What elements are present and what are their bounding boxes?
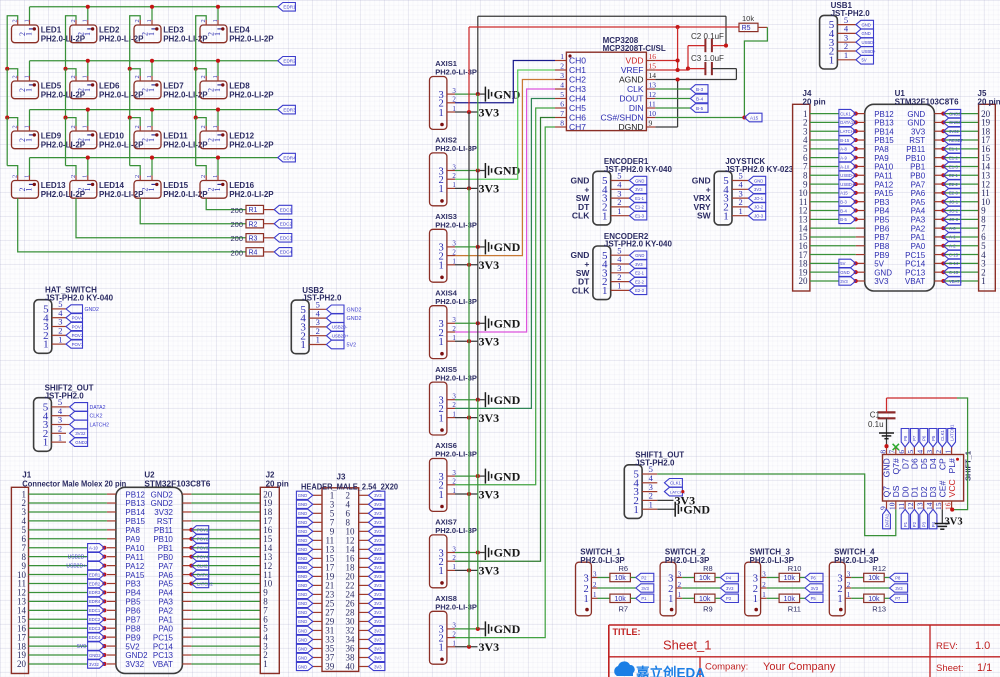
svg-text:1: 1 (439, 337, 444, 348)
svg-text:GND: GND (862, 31, 871, 36)
svg-text:EDC2: EDC2 (89, 617, 101, 622)
wire J4 pin 4 to U1 PB15 (810, 138, 858, 142)
svg-text:STM32F103C8T6: STM32F103C8T6 (895, 97, 960, 106)
net flag GND (J3 pin 33) (296, 635, 312, 643)
svg-text:5: 5 (560, 90, 564, 99)
svg-text:10k: 10k (699, 575, 711, 582)
svg-text:PB8: PB8 (874, 242, 890, 251)
svg-text:3: 3 (678, 570, 682, 578)
svg-text:E2-3: E2-3 (949, 191, 959, 196)
svg-text:5V: 5V (874, 260, 884, 269)
svg-text:4: 4 (916, 450, 925, 454)
svg-text:VBAT: VBAT (905, 277, 925, 286)
svg-text:GND2: GND2 (75, 440, 88, 445)
svg-text:3V3: 3V3 (374, 556, 382, 561)
svg-text:14: 14 (649, 71, 657, 80)
svg-text:EDC3: EDC3 (89, 626, 101, 631)
connector SHIFT2_OUT JST-PH2.0 (34, 384, 94, 452)
svg-text:11: 11 (649, 100, 656, 109)
svg-text:1: 1 (439, 108, 444, 119)
wire J1 pin 3 to U2 PB14 (29, 511, 107, 513)
svg-text:10k: 10k (784, 575, 796, 582)
svg-text:3V3: 3V3 (811, 586, 819, 591)
net flag 3V3 (J3 pin 24) (369, 590, 385, 598)
wire J4 pin 5 to U1 PA8 (810, 147, 858, 151)
svg-text:EDR3: EDR3 (89, 590, 101, 595)
svg-text:PH2.0-LI-3P: PH2.0-LI-3P (435, 297, 477, 306)
svg-text:GND: GND (298, 601, 307, 606)
svg-text:3: 3 (837, 573, 842, 584)
net flag 3V3 (SWITCH_1) (636, 584, 654, 592)
net flag GND (J3 pin 25) (296, 599, 312, 607)
svg-text:E1-1: E1-1 (949, 147, 959, 152)
net flag E2-3 (ENCODER2 pin 1) (630, 286, 647, 294)
svg-text:GND: GND (907, 110, 925, 119)
net flag GND2 (U1 right) (943, 109, 961, 117)
svg-text:13: 13 (916, 502, 925, 510)
net flag GND (ENCODER1 pin 5) (630, 176, 647, 184)
svg-text:PB12: PB12 (874, 110, 894, 119)
wire AXIS4 pin1 to 3V3 (455, 339, 478, 343)
svg-text:CH6: CH6 (569, 113, 586, 123)
LED connector LED13 PH2.0-LI-2P (12, 175, 86, 199)
net flag GND (J3 pin 3) (296, 500, 312, 508)
svg-text:C1: C1 (870, 410, 881, 419)
svg-text:EDR4: EDR4 (283, 155, 296, 160)
net flag 3V3 (J3 pin 16) (369, 554, 385, 562)
svg-text:E2-1: E2-1 (949, 173, 959, 178)
svg-text:9: 9 (649, 119, 653, 128)
svg-text:A-9: A-9 (840, 155, 847, 160)
svg-text:RST: RST (157, 517, 173, 526)
wire AXIS1 pin1 to 3V3 (455, 110, 478, 114)
net flag USB2D+ (J1 pin 9) (66, 561, 104, 569)
net flag GND (J3 pin 35) (296, 644, 312, 652)
svg-text:3V3: 3V3 (479, 564, 500, 578)
resistor R10 10k (767, 564, 805, 582)
net flag A-10 (J4 pin 7) (839, 162, 856, 170)
wire AXIS4 pin3 to GND (455, 321, 485, 325)
wire J4 pin 1 to U1 PB12 (810, 112, 858, 116)
svg-text:GND: GND (298, 520, 307, 525)
net flag A-1 (U1 right) (943, 233, 960, 241)
svg-text:12: 12 (906, 502, 915, 510)
net flag A-8 (J4 pin 5) (839, 145, 856, 153)
svg-text:POV3: POV3 (197, 546, 209, 551)
svg-text:PC15: PC15 (905, 251, 926, 260)
svg-text:GND: GND (298, 646, 307, 651)
resistor R8 10k (682, 564, 720, 582)
net flag A15 (744, 113, 762, 122)
net flag GND (J3 pin 9) (296, 527, 312, 535)
svg-text:GND: GND (298, 547, 307, 552)
svg-text:EDC2: EDC2 (280, 222, 293, 227)
net flag 5V0 (J1 pin 18) (77, 642, 104, 650)
svg-text:PB6: PB6 (874, 224, 890, 233)
title block REV 1.0 (936, 640, 990, 652)
svg-text:PA7: PA7 (158, 562, 173, 571)
wire U1 PC14 to J5 pin 3 (941, 261, 978, 265)
svg-text:GND: GND (635, 253, 644, 258)
svg-text:1: 1 (83, 88, 92, 92)
net flag POV3 (HAT_SWITCH pin 3) (66, 322, 84, 330)
net flag CLK2 (U2 right) (191, 561, 208, 569)
svg-text:10: 10 (649, 109, 657, 118)
svg-text:GND: GND (862, 22, 871, 27)
svg-text:20 pin: 20 pin (978, 97, 1000, 106)
svg-text:2: 2 (847, 581, 851, 589)
net flag EDC4 (J1 pin 17) (88, 633, 105, 641)
net flag CLK1 (shift register top pin 2) (938, 429, 946, 448)
net flag 3V3 (J3 pin 38) (369, 653, 385, 661)
svg-text:PB6: PB6 (125, 607, 141, 616)
net flag 3V3 (J3 pin 12) (369, 536, 385, 544)
net flag B-5 (690, 104, 708, 113)
svg-text:10k: 10k (868, 575, 880, 582)
svg-text:DATA2: DATA2 (90, 405, 106, 411)
svg-text:GND2: GND2 (949, 120, 961, 125)
net flag B-3 (690, 85, 708, 94)
svg-text:P7: P7 (895, 596, 901, 601)
wire J1 pin 4 to U2 PB15 (29, 520, 107, 522)
svg-text:PA10: PA10 (874, 163, 894, 172)
svg-text:PB14: PB14 (874, 127, 894, 136)
svg-text:GND: GND (298, 655, 307, 660)
svg-text:1: 1 (147, 138, 156, 142)
wire U1 RST to J5 pin 17 (941, 138, 978, 142)
svg-text:VREF: VREF (621, 65, 644, 75)
svg-text:PH2.0-LI-2P: PH2.0-LI-2P (229, 35, 274, 44)
resistor R4 200 (230, 248, 274, 258)
svg-text:EDR3: EDR3 (283, 107, 296, 112)
wire AXIS5 pin2 to MCP3208 CH4 (455, 99, 555, 409)
svg-text:C3 1.0uF: C3 1.0uF (691, 54, 724, 63)
wire SHIFT1_OUT pin5 to shift register DS (657, 474, 896, 536)
svg-text:B-3: B-3 (840, 200, 847, 205)
svg-text:EDR1: EDR1 (89, 572, 101, 577)
net flag 3V3 (J3 pin 6) (369, 509, 385, 517)
wire J1 pin 6 to U2 PA9 (29, 538, 107, 540)
svg-text:J1: J1 (22, 471, 31, 480)
svg-text:PA6: PA6 (911, 189, 926, 198)
net flag EDR3 (J1 pin 12) (88, 588, 105, 596)
svg-text:LED2: LED2 (99, 26, 120, 35)
svg-text:GND: GND (683, 502, 710, 516)
net flag A-9 (J4 pin 6) (839, 153, 856, 161)
svg-text:CS#/SHDN: CS#/SHDN (601, 113, 644, 123)
net flag 3V3 (ENCODER2 pin 4) (630, 260, 647, 268)
svg-text:POV3: POV3 (72, 324, 84, 329)
svg-text:3V3: 3V3 (479, 105, 500, 119)
wire U2 PB11 to J2 pin 16 (189, 528, 260, 532)
svg-text:1: 1 (83, 32, 92, 36)
svg-text:R8: R8 (703, 564, 713, 573)
ground AXIS4 (485, 316, 520, 331)
svg-text:USBD-: USBD- (862, 40, 876, 45)
net flag GND2 (J1 pin 19) (88, 651, 105, 659)
svg-text:A15: A15 (840, 191, 848, 196)
wire AXIS6 pin3 to GND (455, 474, 485, 478)
net flag E2-3 (U1 right) (943, 189, 960, 197)
net flag P7 (shift register top pin 5) (911, 429, 919, 448)
svg-text:5V: 5V (862, 58, 867, 63)
net flag GND (J3 pin 15) (296, 554, 312, 562)
resistor R12 10k (851, 564, 889, 582)
wire J4 pin 9 to U1 PA12 (810, 182, 858, 186)
svg-text:CH4: CH4 (569, 94, 586, 104)
svg-text:CLK: CLK (627, 84, 644, 94)
svg-text:CLK2: CLK2 (197, 563, 208, 568)
svg-text:CLK1: CLK1 (940, 429, 945, 441)
connector J2 20 pin (260, 471, 289, 674)
svg-text:GND: GND (494, 622, 521, 636)
svg-text:1: 1 (213, 138, 222, 142)
wire U1 PB10 to J5 pin 15 (941, 156, 978, 160)
net flag USB2D+ (USB2 pin 2) (326, 331, 349, 340)
IC SHIFT_1 shift register 74HC165 (878, 447, 972, 510)
svg-text:JO-2: JO-2 (754, 205, 764, 210)
wire U1 PA4 to J5 pin 9 (941, 208, 978, 212)
svg-text:11: 11 (897, 503, 906, 510)
wire AGND/DGND (655, 69, 736, 127)
connector AXIS5 PH2.0-LI-3P (430, 365, 477, 435)
wire J4 pin 6 to U1 PA9 (810, 156, 858, 160)
svg-text:PC15: PC15 (153, 633, 174, 642)
net flag P7 (890, 594, 908, 602)
svg-text:GND: GND (298, 565, 307, 570)
net flag 5V2 (USB2 pin 1) (326, 340, 356, 349)
wire 3V3 vertical bus (468, 27, 470, 647)
svg-text:3V3: 3V3 (945, 517, 963, 528)
svg-text:PB9: PB9 (874, 251, 890, 260)
resistor R2 200 (230, 220, 274, 230)
svg-text:LED12: LED12 (229, 132, 254, 141)
svg-text:P1: P1 (641, 596, 647, 601)
svg-text:RESET: RESET (949, 138, 963, 143)
wire J1 pin 5 to U2 PA8 (29, 529, 107, 531)
wire J4 pin 18 to U1 5V (810, 261, 858, 265)
svg-text:PA11: PA11 (125, 553, 144, 562)
svg-text:LATCH1: LATCH1 (840, 129, 856, 134)
svg-text:P6: P6 (811, 575, 817, 580)
svg-text:4: 4 (560, 81, 564, 90)
svg-text:PH2.0-LI-3P: PH2.0-LI-3P (435, 221, 477, 230)
svg-text:3V3: 3V3 (374, 628, 382, 633)
net flag CLK2 (SHIFT2_OUT pin 4) (66, 411, 103, 420)
net flag GND (J3 pin 31) (296, 626, 312, 634)
connector AXIS1 PH2.0-LI-3P (430, 59, 477, 129)
svg-text:16: 16 (649, 52, 657, 61)
svg-text:R11: R11 (788, 604, 801, 613)
wire U2 PA4 to J2 pin 9 (191, 591, 260, 593)
net flag P8 (890, 573, 908, 581)
svg-text:1: 1 (847, 591, 851, 599)
svg-text:PH2.0-LI-3P: PH2.0-LI-3P (435, 68, 477, 77)
net flag USBD- (J4 pin 8) (839, 171, 856, 179)
svg-text:1: 1 (147, 188, 156, 192)
svg-text:GND: GND (298, 610, 307, 615)
wire AXIS3 pin2 to MCP3208 CH2 (455, 80, 555, 256)
net flag P6 (805, 573, 823, 581)
svg-text:1: 1 (602, 285, 608, 297)
svg-text:PH2.0-LI-3P: PH2.0-LI-3P (435, 526, 477, 535)
svg-text:MCP3208T-CI/SL: MCP3208T-CI/SL (603, 44, 666, 53)
wire U1 PA3 to J5 pin 8 (941, 217, 978, 221)
svg-text:GND: GND (754, 178, 763, 183)
svg-text:PB13: PB13 (874, 119, 894, 128)
svg-text:1: 1 (58, 334, 62, 344)
svg-text:5: 5 (906, 450, 915, 454)
connector AXIS4 PH2.0-LI-3P (430, 288, 477, 358)
op-amp/IC MCP3208 (ADC) U-MCP (555, 36, 666, 132)
svg-text:1: 1 (213, 88, 222, 92)
svg-text:2: 2 (593, 581, 597, 589)
net flag E1-1 (ENCODER1 pin 3) (630, 194, 647, 202)
wire U2 GND2 to J2 pin 19 (191, 502, 260, 504)
net flag POV1 (HAT_SWITCH pin 1) (66, 340, 84, 348)
net flag USBD+ (J4 pin 9) (839, 180, 856, 188)
svg-text:2: 2 (678, 581, 682, 589)
net flag P2 (shift register bottom pin 12) (911, 509, 919, 529)
wire J4 pin 13 to U1 PB5 (810, 217, 858, 221)
svg-text:1: 1 (25, 88, 34, 92)
net flag CLK1 (SHIFT1_OUT pin4) (664, 479, 682, 488)
svg-text:PH2.0-LI-2P: PH2.0-LI-2P (229, 141, 274, 150)
svg-text:P7: P7 (912, 435, 917, 441)
net flag 3V32 (U1 right) (943, 127, 960, 135)
wire U2 PA7 to J2 pin 12 (189, 564, 260, 568)
svg-text:3V32: 3V32 (125, 660, 144, 669)
svg-text:DATA1: DATA1 (840, 120, 854, 125)
svg-text:JST-PH2.0: JST-PH2.0 (302, 294, 342, 303)
svg-text:1: 1 (678, 591, 682, 599)
wire J1 pin 13 to U2 PB5 (29, 599, 107, 603)
svg-text:3V3: 3V3 (911, 127, 926, 136)
svg-text:PA10: PA10 (125, 544, 145, 553)
connector J3 HEADER_MALE_2.54_2X20 (301, 473, 399, 672)
svg-text:PB15: PB15 (874, 136, 894, 145)
svg-text:1: 1 (83, 138, 92, 142)
svg-text:PB0: PB0 (158, 553, 174, 562)
svg-text:LED16: LED16 (229, 181, 254, 190)
wire SWITCH_3 pin2 to 3V3 (767, 587, 805, 589)
svg-text:PA4: PA4 (158, 589, 173, 598)
svg-text:SW: SW (697, 211, 712, 221)
svg-text:PA1: PA1 (158, 615, 173, 624)
svg-text:3: 3 (560, 71, 564, 80)
wire AXIS7 pin1 to 3V3 (455, 568, 478, 572)
wire MCP DOUT to B-4 (655, 98, 690, 100)
LED connector LED8 PH2.0-LI-2P (200, 75, 274, 99)
svg-text:1: 1 (439, 413, 444, 424)
svg-text:20 pin: 20 pin (803, 97, 826, 106)
svg-text:3: 3 (668, 573, 673, 584)
svg-text:PC13: PC13 (905, 268, 926, 277)
svg-text:PB11: PB11 (154, 526, 174, 535)
svg-text:GND: GND (298, 628, 307, 633)
ground AXIS2 (485, 163, 520, 178)
svg-text:1: 1 (25, 32, 34, 36)
connector USB1 JST-PH2.0 (820, 1, 871, 69)
svg-text:PA8: PA8 (125, 526, 140, 535)
svg-text:1: 1 (25, 188, 34, 192)
wire SWITCH_4 pin2 to 3V3 (851, 587, 889, 589)
svg-text:1: 1 (147, 32, 156, 36)
net flag GND2 (SHIFT2_OUT pin 1) (70, 438, 88, 447)
svg-text:GND: GND (907, 119, 925, 128)
svg-text:3: 3 (753, 573, 758, 584)
ground AXIS7 (485, 545, 520, 560)
net flag A15 (J4 pin 10) (839, 189, 856, 197)
svg-text:1: 1 (668, 594, 673, 605)
svg-text:POV4: POV4 (72, 316, 84, 321)
net flag P2 (636, 573, 654, 581)
wire J1 pin 9 to U2 PA12 (29, 564, 107, 568)
svg-text:PB11: PB11 (906, 145, 926, 154)
svg-text:7: 7 (888, 450, 897, 454)
svg-text:PB1: PB1 (910, 163, 926, 172)
wire J1 pin 1 to U2 PB12 (29, 493, 107, 495)
wire J4 pin 2 to U1 PB13 (810, 120, 858, 124)
LED connector LED2 PH2.0-LI-2P (70, 19, 144, 43)
svg-text:CH2: CH2 (569, 75, 586, 85)
svg-text:GND2: GND2 (347, 307, 362, 313)
svg-text:GND: GND (298, 493, 307, 498)
wire R5 to CS#/SHDN net A15 (655, 27, 767, 119)
net flag P5 (805, 594, 823, 602)
svg-text:PB7: PB7 (125, 615, 141, 624)
svg-text:E2-2: E2-2 (949, 182, 959, 187)
svg-text:JO-2: JO-2 (949, 208, 959, 213)
svg-text:R6: R6 (619, 564, 629, 573)
svg-text:PB7: PB7 (874, 233, 890, 242)
svg-text:PB3: PB3 (125, 580, 141, 589)
wire U1 PA5 to J5 pin 10 (941, 200, 978, 204)
net label 3V3 at AXIS8 (479, 640, 500, 654)
svg-text:DGND: DGND (618, 122, 643, 132)
svg-text:TITLE:: TITLE: (613, 627, 641, 637)
svg-text:3V32: 3V32 (89, 662, 99, 667)
net flag LATCH2 (SHIFT2_OUT pin 3) (66, 420, 109, 429)
svg-text:GND: GND (298, 502, 307, 507)
svg-text:3V3: 3V3 (374, 619, 382, 624)
net flag EDC4 (274, 248, 292, 257)
title block Company (705, 661, 836, 673)
wire J1 pin 8 to U2 PA11 (29, 555, 107, 559)
connector J1 Connector Male Molex 20 pin (11, 471, 126, 674)
net flag JO-3 (U1 right) (943, 215, 960, 223)
net flag EDR2 (278, 57, 296, 66)
net flag EDC2 (274, 219, 292, 228)
net label 3V3 at AXIS5 (479, 411, 500, 425)
svg-text:PB10: PB10 (906, 154, 926, 163)
svg-text:5V0: 5V0 (77, 644, 86, 650)
svg-text:1: 1 (762, 591, 766, 599)
svg-text:PA9: PA9 (874, 154, 889, 163)
svg-text:GND: GND (494, 469, 521, 483)
LED connector LED5 PH2.0-LI-2P (12, 75, 86, 99)
connector ENCODER1 JST-PH2.0 KY-040 (571, 157, 673, 225)
wire J4 pin 16 to U1 PB8 (810, 245, 856, 247)
svg-text:10k: 10k (742, 14, 754, 23)
connector SWITCH_1 PH2.0-LI-3P (576, 548, 626, 616)
wire J4 pin 17 to U1 PB9 (810, 254, 856, 256)
svg-text:3V3: 3V3 (895, 586, 903, 591)
svg-text:GND: GND (494, 393, 521, 407)
svg-text:PA1: PA1 (911, 233, 926, 242)
net flag POV4 (U2 right) (191, 552, 208, 560)
svg-text:GND: GND (298, 592, 307, 597)
